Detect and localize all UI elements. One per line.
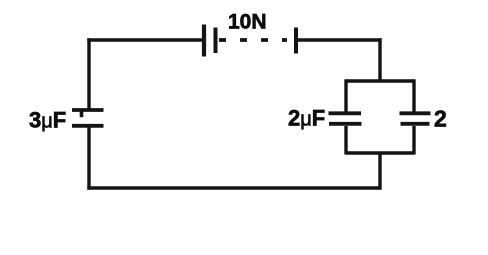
node: parallel box top bar (346, 79, 414, 82)
capacitor C2 top plate (329, 111, 362, 115)
wire right vertical to parallel box (378, 38, 381, 81)
wire left vertical lower (87, 127, 90, 189)
capacitor C1 top plate (72, 108, 104, 112)
battery dashed continuation (219, 38, 287, 42)
battery B1 plate long (left) (202, 25, 206, 57)
wire right branch lower (412, 126, 415, 155)
svg-text:10N: 10N (228, 11, 267, 34)
capacitor C3 bottom plate (401, 122, 430, 126)
node: parallel box bottom bar (346, 151, 414, 154)
capacitor C1 inner tick (80, 112, 84, 118)
wire right vertical to bottom (378, 153, 381, 190)
svg-text:2: 2 (434, 106, 447, 132)
wire left branch lower (344, 126, 347, 155)
wire bottom horizontal (87, 186, 380, 189)
wire top-left horizontal (87, 38, 202, 41)
wire top-right horizontal (296, 38, 382, 41)
svg-text:3μF: 3μF (29, 108, 66, 133)
svg-text:2μF: 2μF (288, 106, 325, 131)
capacitor C3 top plate (400, 111, 431, 115)
capacitor C1 bottom plate (72, 124, 104, 128)
wire left branch upper (344, 79, 347, 112)
wire right branch upper (412, 79, 415, 112)
battery B1 plate short (second) (214, 28, 218, 54)
wire left vertical upper (87, 38, 90, 108)
capacitor C2 bottom plate (329, 122, 362, 126)
battery B1 plate right (294, 28, 298, 54)
